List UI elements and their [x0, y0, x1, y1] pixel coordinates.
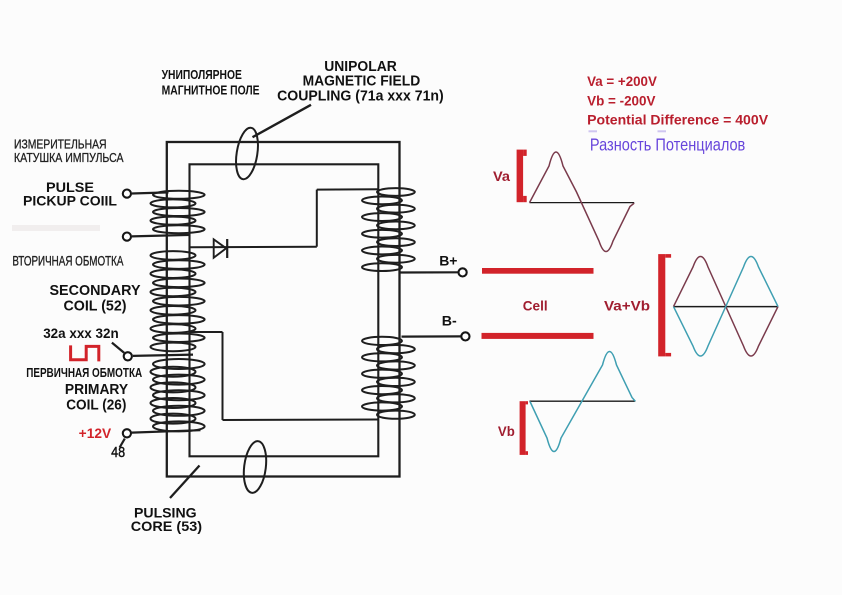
svg-text:ИЗМЕРИТЕЛЬНАЯ: ИЗМЕРИТЕЛЬНАЯ — [14, 137, 107, 151]
svg-text:COIL (52): COIL (52) — [64, 298, 127, 315]
svg-text:ВТОРИЧНАЯ ОБМОТКА: ВТОРИЧНАЯ ОБМОТКА — [12, 254, 123, 270]
svg-text:+12V: +12V — [79, 426, 111, 441]
svg-text:Va = +200V: Va = +200V — [587, 74, 657, 89]
svg-text:КАТУШКА ИМПУЛЬСА: КАТУШКА ИМПУЛЬСА — [14, 151, 124, 165]
svg-text:Va: Va — [493, 169, 511, 184]
svg-text:МАГНИТНОЕ ПОЛЕ: МАГНИТНОЕ ПОЛЕ — [162, 84, 260, 98]
svg-text:CORE (53): CORE (53) — [131, 518, 202, 534]
svg-text:Potential Difference = 400V: Potential Difference = 400V — [587, 112, 769, 128]
svg-text:32a xxx 32n: 32a xxx 32n — [43, 325, 119, 341]
svg-text:COUPLING (71a xxx 71n): COUPLING (71a xxx 71n) — [277, 89, 444, 105]
svg-text:PRIMARY: PRIMARY — [65, 382, 129, 398]
svg-text:Разность Потенциалов: Разность Потенциалов — [590, 135, 745, 155]
svg-text:SECONDARY: SECONDARY — [50, 282, 141, 299]
svg-text:ПЕРВИЧНАЯ ОБМОТКА: ПЕРВИЧНАЯ ОБМОТКА — [26, 365, 142, 380]
svg-text:Va+Vb: Va+Vb — [604, 298, 650, 314]
svg-text:MAGNETIC FIELD: MAGNETIC FIELD — [303, 74, 421, 90]
svg-text:COIL (26): COIL (26) — [66, 397, 126, 413]
svg-text:PICKUP COIIL: PICKUP COIIL — [23, 192, 117, 208]
svg-text:Vb = -200V: Vb = -200V — [587, 94, 655, 109]
svg-text:УНИПОЛЯРНОЕ: УНИПОЛЯРНОЕ — [162, 68, 242, 82]
svg-text:B-: B- — [442, 312, 457, 328]
svg-text:48: 48 — [111, 445, 125, 461]
svg-text:Cell: Cell — [523, 298, 548, 313]
svg-text:Vb: Vb — [498, 424, 515, 439]
svg-text:B+: B+ — [439, 253, 457, 269]
